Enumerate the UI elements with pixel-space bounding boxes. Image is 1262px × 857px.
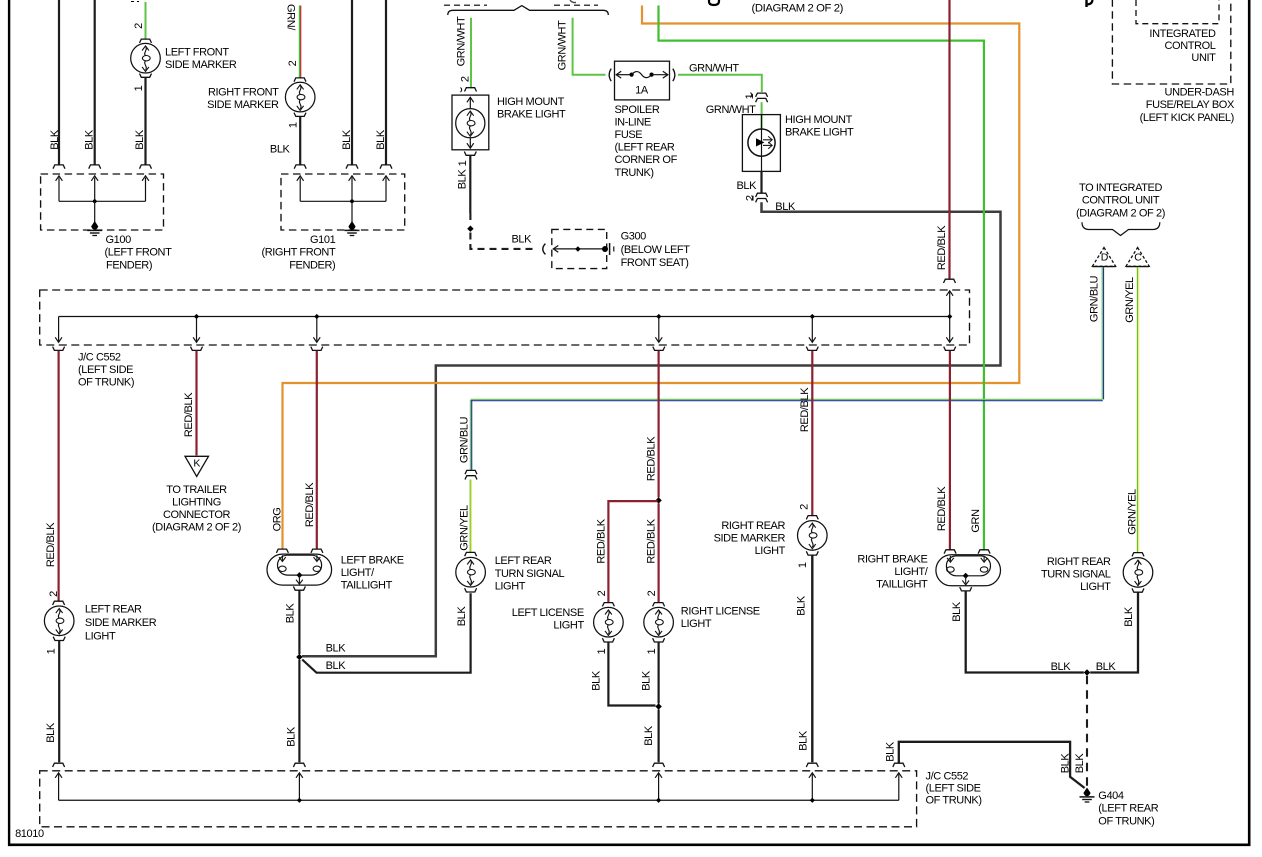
page border bottom bbox=[8, 843, 1251, 846]
bulb right rear side marker bbox=[798, 521, 828, 551]
svg-text:FUSE/RELAY BOX: FUSE/RELAY BOX bbox=[1146, 99, 1235, 111]
svg-text:BLK: BLK bbox=[640, 670, 652, 691]
svg-text:LIGHT: LIGHT bbox=[85, 630, 116, 642]
svg-text:RIGHT REAR: RIGHT REAR bbox=[721, 520, 785, 532]
ground splice left taillight bbox=[296, 654, 302, 660]
svg-text:CORNER OF: CORNER OF bbox=[615, 154, 678, 166]
wire BLK from right taillight bbox=[966, 591, 1084, 673]
integrated control unit inner box bbox=[1136, 0, 1219, 24]
svg-text:BLK: BLK bbox=[49, 129, 61, 150]
splice G-junction bbox=[467, 226, 473, 232]
svg-text:SIDE MARKER: SIDE MARKER bbox=[85, 617, 157, 629]
wire BLK from left taillight bbox=[298, 590, 300, 654]
wire BLK from right front side marker bbox=[299, 117, 301, 165]
cup right front side marker pin1 bbox=[294, 113, 306, 117]
wire GRN/WHT to fuse bbox=[573, 18, 606, 75]
svg-text:OF TRUNK): OF TRUNK) bbox=[1098, 815, 1154, 827]
svg-text:SIDE MARKER: SIDE MARKER bbox=[207, 99, 279, 111]
svg-text:1A: 1A bbox=[635, 84, 649, 96]
wire RED/BLK to right rear side marker bbox=[811, 351, 813, 516]
svg-text:TO TRAILER: TO TRAILER bbox=[166, 484, 227, 496]
svg-text:LEFT FRONT: LEFT FRONT bbox=[165, 47, 229, 59]
svg-text:FUSE: FUSE bbox=[615, 129, 643, 141]
fuse box bbox=[615, 61, 670, 100]
cup left taillight pin RED/BLK bbox=[311, 549, 323, 553]
bulb left rear turn signal bbox=[456, 557, 486, 587]
svg-text:RED/BLK: RED/BLK bbox=[595, 518, 607, 563]
svg-text:BLK: BLK bbox=[83, 129, 95, 150]
connector cup left front side marker pin1 bbox=[140, 74, 152, 78]
svg-text:(DIAGRAM 2 OF 2): (DIAGRAM 2 OF 2) bbox=[752, 2, 844, 14]
wire RED/BLK to right license bbox=[657, 503, 659, 602]
J/C C552 bottom pin at x=299.4 bbox=[293, 763, 305, 767]
cup right front side marker pin2 bbox=[294, 78, 306, 82]
wire BLK from right license bbox=[657, 642, 659, 704]
G101 ground lead bbox=[351, 201, 353, 222]
fuse right paren bbox=[673, 69, 675, 82]
cut label fragment bbox=[131, 1, 139, 3]
svg-text:LIGHT/: LIGHT/ bbox=[341, 567, 375, 579]
J/C C552 bus bbox=[59, 316, 950, 318]
wire BLK from hmbl1 bbox=[469, 155, 471, 213]
svg-text:GRN/WHT: GRN/WHT bbox=[455, 16, 467, 66]
dual filament taillight left bbox=[267, 554, 332, 585]
cup G100 pin3 bbox=[140, 165, 152, 169]
wire BLK from led bbox=[760, 171, 762, 192]
svg-text:BLK: BLK bbox=[1051, 661, 1072, 673]
under-dash fuse/relay box bbox=[1112, 0, 1230, 84]
dashed wire BLK to G404 bbox=[1086, 676, 1088, 787]
svg-text:BLK: BLK bbox=[134, 129, 146, 150]
wire BLK from left license bbox=[608, 642, 655, 706]
svg-text:LEFT LICENSE: LEFT LICENSE bbox=[512, 607, 584, 619]
wire RED/BLK feed bbox=[948, 0, 950, 279]
G100 pin1 arrow bbox=[58, 178, 60, 202]
page border right bbox=[1248, 0, 1251, 846]
svg-text:OF TRUNK): OF TRUNK) bbox=[926, 795, 982, 807]
svg-text:(LEFT KICK PANEL): (LEFT KICK PANEL) bbox=[1140, 112, 1234, 124]
wire RED/BLK to left license bbox=[608, 501, 657, 603]
connector cup left front side marker pin2 bbox=[140, 39, 152, 43]
G101 pin2 arrow bbox=[351, 178, 353, 202]
svg-text:BLK: BLK bbox=[285, 603, 297, 624]
svg-text:(LEFT SIDE: (LEFT SIDE bbox=[78, 364, 133, 376]
bulb left license light bbox=[594, 607, 624, 637]
wire BLK to G100 pin1 bbox=[58, 0, 60, 165]
junction connector J/C C552 box bbox=[40, 290, 970, 345]
ground box G101 bbox=[281, 174, 405, 230]
svg-text:GRN/BLU: GRN/BLU bbox=[1088, 276, 1100, 323]
svg-text:OF TRUNK): OF TRUNK) bbox=[78, 377, 134, 389]
J/C C552 bottom bus bbox=[59, 799, 899, 801]
cup G100 pin2 bbox=[89, 165, 101, 169]
svg-text:D: D bbox=[1101, 252, 1109, 264]
G101 bus junction bbox=[350, 199, 354, 203]
led lead bbox=[761, 115, 763, 172]
svg-text:RED/BLK: RED/BLK bbox=[936, 486, 948, 531]
cup G300 bbox=[543, 244, 546, 255]
wire BLK to G101 pin2 bbox=[351, 0, 353, 165]
bulb left rear side marker bbox=[44, 606, 74, 636]
svg-text:CONTROL: CONTROL bbox=[1165, 40, 1216, 52]
G300 splice bbox=[575, 246, 581, 252]
cup left taillight pin ORG bbox=[276, 549, 288, 553]
J/C C552 bottom pin at x=58.6 bbox=[53, 763, 65, 767]
cup right license pin1 bbox=[653, 638, 665, 642]
ground box G100 bbox=[41, 174, 164, 230]
svg-text:GRN/WHT: GRN/WHT bbox=[689, 63, 739, 75]
svg-text:(LEFT REAR: (LEFT REAR bbox=[1098, 803, 1158, 815]
cup G101 pin1 bbox=[294, 165, 306, 169]
bulb right license light bbox=[644, 607, 674, 637]
J/C C552 bottom pin at x=658.6 bbox=[653, 763, 665, 767]
svg-text:1: 1 bbox=[646, 648, 658, 654]
svg-text:BLK: BLK bbox=[326, 660, 347, 672]
brace to spoiler switch bbox=[448, 6, 609, 15]
ground box G300 bbox=[552, 229, 607, 268]
wire BLK bottom strip to G404 bbox=[899, 742, 1085, 788]
J/C C552 pin at x=196.5 bbox=[196, 317, 198, 342]
svg-text:CONTROL UNIT: CONTROL UNIT bbox=[1082, 195, 1160, 207]
svg-text:J/C C552: J/C C552 bbox=[78, 351, 121, 363]
wire GRN/BLU from D bbox=[1101, 267, 1103, 399]
svg-text:SPOILER: SPOILER bbox=[615, 104, 660, 116]
ground symbol G100 bbox=[91, 221, 98, 230]
J/C C552 pin at x=316.8 bbox=[316, 317, 318, 342]
svg-text:TAILLIGHT: TAILLIGHT bbox=[876, 579, 928, 591]
svg-text:(DIAGRAM 2 OF 2): (DIAGRAM 2 OF 2) bbox=[1076, 207, 1165, 219]
ground symbol G404 bbox=[1083, 788, 1090, 797]
cup high mount brake light pin 2 bbox=[465, 88, 477, 92]
svg-text:1: 1 bbox=[133, 85, 145, 91]
svg-text:LIGHT: LIGHT bbox=[1080, 581, 1111, 593]
svg-text:GRN/YEL: GRN/YEL bbox=[458, 505, 470, 551]
svg-text:G404: G404 bbox=[1098, 790, 1124, 802]
G100 ground lead bbox=[94, 201, 96, 222]
svg-text:1: 1 bbox=[797, 562, 809, 568]
wire BLK license to bottom strip bbox=[657, 710, 659, 763]
J/C C552 pin at x=949.7 bbox=[949, 317, 951, 342]
svg-text:81010: 81010 bbox=[15, 828, 44, 840]
svg-text:LIGHT: LIGHT bbox=[755, 545, 786, 557]
svg-text:ORG: ORG bbox=[271, 508, 283, 532]
svg-text:SIDE MARKER: SIDE MARKER bbox=[714, 532, 786, 544]
svg-text:BLK: BLK bbox=[1074, 753, 1086, 774]
svg-text:BLK: BLK bbox=[798, 730, 810, 751]
svg-text:TURN SIGNAL: TURN SIGNAL bbox=[495, 568, 565, 580]
svg-text:RED/BLK: RED/BLK bbox=[936, 225, 948, 270]
wire BLK branch from turn signal bbox=[302, 593, 470, 673]
cup right turn signal pin bbox=[1132, 553, 1144, 557]
wire GRN/YEL to left turn signal bbox=[469, 480, 471, 553]
svg-text:LIGHTING: LIGHTING bbox=[172, 496, 221, 508]
J/C C552 bottom pin at x=812.3 bbox=[806, 763, 818, 767]
cup left turn signal ground pin bbox=[465, 588, 477, 592]
inline connector pin 1 bbox=[756, 93, 768, 97]
J/C C552 bottom pin at x=898.8 bbox=[893, 763, 905, 767]
inline connector GRN/BLU-GRN/YEL bbox=[465, 470, 477, 474]
svg-text:LIGHT/: LIGHT/ bbox=[894, 566, 928, 578]
svg-text:BLK: BLK bbox=[456, 606, 468, 627]
wire GRN/WHT to high mount brake light 1 bbox=[470, 18, 472, 88]
svg-text:2: 2 bbox=[744, 195, 756, 201]
wire BLK from right rear side marker bbox=[811, 555, 813, 762]
wire BLK from right turn signal bbox=[1090, 592, 1138, 672]
svg-text:BRAKE LIGHT: BRAKE LIGHT bbox=[497, 109, 566, 121]
wire BLK from left rear side marker bbox=[58, 641, 60, 763]
hmbl1 pin lead top bbox=[469, 97, 471, 109]
ground symbol G101 bbox=[348, 221, 355, 230]
svg-text:CONNECTOR: CONNECTOR bbox=[163, 509, 231, 521]
svg-text:2: 2 bbox=[596, 590, 608, 596]
svg-text:BLK: BLK bbox=[590, 670, 602, 691]
svg-text:G300: G300 bbox=[621, 231, 647, 243]
wire GRN/WHT into led bbox=[761, 102, 763, 129]
svg-text:RED/BLK: RED/BLK bbox=[646, 436, 658, 481]
cup left license pin2 bbox=[602, 603, 614, 607]
svg-text:BLK: BLK bbox=[512, 233, 533, 245]
svg-text:RED/BLK: RED/BLK bbox=[183, 392, 195, 437]
bulb right rear turn signal bbox=[1123, 558, 1153, 588]
G300 terminal bar bbox=[609, 243, 611, 255]
G300 terminal dot bbox=[602, 246, 608, 252]
cup left taillight ground pin bbox=[293, 586, 305, 590]
dashed BLK wire to G300 bbox=[469, 213, 471, 225]
svg-text:2: 2 bbox=[798, 504, 810, 510]
svg-text:1: 1 bbox=[744, 93, 756, 99]
connector triangle D bbox=[1092, 248, 1115, 267]
svg-text:HIGH MOUNT: HIGH MOUNT bbox=[497, 96, 565, 108]
box high mount brake light 2 bbox=[742, 115, 780, 172]
svg-text:LEFT BRAKE: LEFT BRAKE bbox=[341, 555, 404, 567]
svg-text:HIGH MOUNT: HIGH MOUNT bbox=[785, 114, 853, 126]
svg-text:TRUNK): TRUNK) bbox=[615, 167, 654, 179]
svg-text:LIGHT: LIGHT bbox=[495, 580, 526, 592]
wire GRN feed bbox=[659, 6, 984, 551]
J/C C552 pin at x=812.3 bbox=[811, 317, 813, 342]
G100 bus junction bbox=[93, 199, 97, 203]
svg-text:BLK: BLK bbox=[326, 642, 347, 654]
svg-text:GRN/YEL: GRN/YEL bbox=[1124, 277, 1136, 323]
cup high mount brake light pin 1 bbox=[464, 152, 476, 156]
cup right license pin2 bbox=[653, 603, 665, 607]
svg-text:BLK: BLK bbox=[270, 144, 291, 156]
svg-text:BRAKE LIGHT: BRAKE LIGHT bbox=[785, 127, 854, 139]
J/C C552 pin at x=658.8 bbox=[658, 317, 660, 342]
J/C C552 feed pin entry bbox=[944, 279, 956, 283]
wire GRN/RED to right front side marker bbox=[298, 6, 300, 78]
cup right turn signal ground pin bbox=[1132, 588, 1144, 592]
svg-text:(LEFT SIDE: (LEFT SIDE bbox=[926, 782, 981, 794]
G101 pin3 arrow bbox=[385, 178, 387, 202]
svg-text:FENDER): FENDER) bbox=[106, 259, 152, 271]
inline connector pin 2 bbox=[756, 193, 768, 197]
cup G101 pin2 bbox=[346, 165, 358, 169]
svg-text:RED/BLK: RED/BLK bbox=[799, 387, 811, 432]
svg-text:GRN: GRN bbox=[970, 509, 982, 533]
svg-text:RIGHT BRAKE: RIGHT BRAKE bbox=[857, 554, 927, 566]
svg-text:2: 2 bbox=[459, 76, 471, 82]
G300 internal lead bbox=[555, 248, 605, 250]
wire RED/BLK to right brake light bbox=[949, 351, 951, 550]
G100 pin2 arrow bbox=[94, 178, 96, 202]
box high mount brake light 1 bbox=[452, 95, 489, 150]
svg-text:LIGHT: LIGHT bbox=[681, 618, 712, 630]
cup G100 pin1 bbox=[53, 165, 65, 169]
svg-text:UNIT: UNIT bbox=[1191, 52, 1216, 64]
svg-text:BLK: BLK bbox=[341, 129, 353, 150]
svg-text:BLK: BLK bbox=[45, 722, 57, 743]
cup G101 pin3 bbox=[380, 165, 392, 169]
svg-text:IN-LINE: IN-LINE bbox=[615, 117, 651, 129]
cup left rear side marker pin1 bbox=[53, 637, 65, 641]
license feed splice bbox=[655, 497, 661, 503]
svg-text:2: 2 bbox=[287, 60, 299, 66]
svg-text:C: C bbox=[1134, 252, 1142, 264]
cup right rear side marker pin2 bbox=[806, 516, 818, 520]
svg-text:RIGHT REAR: RIGHT REAR bbox=[1047, 556, 1111, 568]
svg-text:BLK: BLK bbox=[796, 595, 808, 616]
led triangle bbox=[756, 138, 764, 146]
cut title descender g bbox=[709, 0, 719, 5]
cut title descender p bbox=[1085, 0, 1087, 7]
wire RED/BLK to left rear side marker bbox=[57, 351, 59, 601]
G100 bus bbox=[59, 200, 146, 202]
svg-text:BLK: BLK bbox=[951, 601, 963, 622]
svg-text:(DIAGRAM 2 OF 2): (DIAGRAM 2 OF 2) bbox=[152, 522, 241, 534]
svg-text:FENDER): FENDER) bbox=[289, 259, 335, 271]
svg-text:GRN/BLU: GRN/BLU bbox=[458, 417, 470, 464]
svg-text:BLK: BLK bbox=[643, 725, 655, 746]
svg-text:GRN/WHT: GRN/WHT bbox=[556, 20, 568, 70]
ground junction splice bbox=[1084, 669, 1090, 675]
svg-text:LEFT REAR: LEFT REAR bbox=[85, 604, 142, 616]
wire RED/BLK to left brake light bbox=[316, 351, 318, 549]
svg-text:2: 2 bbox=[646, 590, 658, 596]
cup left rear side marker pin2 bbox=[53, 601, 65, 605]
bulb high mount brake light 1 bbox=[456, 109, 485, 138]
connector triangle K to trailer bbox=[185, 456, 209, 476]
cup right taillight pin RED/BLK bbox=[944, 550, 956, 554]
svg-text:(LEFT REAR: (LEFT REAR bbox=[615, 142, 675, 154]
wire GRN/WHT to left front side marker bbox=[145, 2, 147, 39]
wire RED/BLK to license junction bbox=[657, 351, 659, 498]
connector triangle C bbox=[1126, 248, 1149, 267]
J/C C552 pin at x=58.6 bbox=[58, 317, 60, 342]
cup right rear side marker pin1 bbox=[806, 551, 818, 555]
wire BLK from left front side marker bbox=[144, 78, 146, 165]
svg-text:TAILLIGHT: TAILLIGHT bbox=[341, 580, 393, 592]
svg-text:G100: G100 bbox=[106, 234, 132, 246]
bulb right front side marker bbox=[285, 82, 315, 112]
svg-text:(LEFT FRONT: (LEFT FRONT bbox=[105, 247, 173, 259]
svg-text:1: 1 bbox=[457, 160, 469, 166]
bulb left front side marker bbox=[131, 43, 161, 73]
svg-text:LEFT REAR: LEFT REAR bbox=[495, 555, 552, 567]
wire BLK junction to bottom strip bbox=[298, 660, 300, 762]
svg-text:(BELOW LEFT: (BELOW LEFT bbox=[621, 244, 691, 256]
G100 pin3 arrow bbox=[145, 178, 147, 202]
page border left bbox=[8, 0, 10, 846]
svg-text:BLK: BLK bbox=[375, 129, 387, 150]
svg-text:FRONT SEAT): FRONT SEAT) bbox=[621, 257, 689, 269]
svg-text:2: 2 bbox=[48, 591, 60, 597]
svg-text:1: 1 bbox=[45, 648, 57, 654]
svg-text:BLK: BLK bbox=[457, 169, 469, 190]
svg-text:TURN SIGNAL: TURN SIGNAL bbox=[1041, 568, 1111, 580]
svg-text:RIGHT FRONT: RIGHT FRONT bbox=[208, 86, 279, 98]
dual filament taillight right bbox=[936, 555, 1001, 586]
license ground splice bbox=[655, 703, 661, 709]
fuse left paren bbox=[609, 69, 611, 82]
cup left turn signal pin bbox=[465, 552, 477, 556]
hmbl1 pin lead bottom bbox=[469, 138, 471, 149]
svg-text:K: K bbox=[193, 458, 200, 470]
svg-text:2: 2 bbox=[133, 23, 145, 29]
svg-text:BLK: BLK bbox=[884, 741, 896, 762]
svg-text:GRN/: GRN/ bbox=[285, 4, 297, 31]
led circle bbox=[748, 129, 775, 156]
svg-text:TO INTEGRATED: TO INTEGRATED bbox=[1079, 182, 1162, 194]
svg-text:1: 1 bbox=[596, 648, 608, 654]
svg-text:G101: G101 bbox=[310, 234, 336, 246]
G101 bus bbox=[300, 200, 386, 202]
led arrows bbox=[763, 139, 772, 141]
wire BLK ground run from led light bbox=[302, 202, 1001, 656]
svg-text:(RIGHT FRONT: (RIGHT FRONT bbox=[261, 247, 336, 259]
gather brace bbox=[1082, 222, 1160, 235]
cup left license pin1 bbox=[602, 638, 614, 642]
G101 pin1 arrow bbox=[299, 178, 301, 202]
svg-text:GRN/YEL: GRN/YEL bbox=[1126, 489, 1138, 535]
wire ORG feed bbox=[283, 6, 1020, 550]
svg-text:RED/BLK: RED/BLK bbox=[646, 518, 658, 563]
svg-text:UNDER-DASH: UNDER-DASH bbox=[1165, 87, 1235, 99]
svg-text:J/C C552: J/C C552 bbox=[926, 770, 969, 782]
wire BLK to G100 pin2 bbox=[94, 0, 96, 165]
junction connector J/C C552 bottom box bbox=[40, 771, 917, 827]
cup right taillight ground pin bbox=[960, 587, 972, 591]
wire RED/BLK to trailer connector bbox=[195, 351, 197, 456]
svg-text:RED/BLK: RED/BLK bbox=[45, 522, 57, 567]
wire BLK to G101 pin3 bbox=[385, 0, 387, 165]
svg-text:RIGHT LICENSE: RIGHT LICENSE bbox=[681, 606, 760, 618]
wire GRN/YEL from C bbox=[1136, 267, 1138, 552]
svg-text:LIGHT: LIGHT bbox=[553, 620, 584, 632]
svg-text:BLK: BLK bbox=[737, 180, 758, 192]
wire GRN/WHT from fuse bbox=[678, 75, 762, 92]
svg-text:SIDE MARKER: SIDE MARKER bbox=[165, 59, 237, 71]
svg-text:RED/BLK: RED/BLK bbox=[304, 482, 316, 527]
svg-text:INTEGRATED: INTEGRATED bbox=[1149, 28, 1216, 40]
svg-text:BLK: BLK bbox=[1123, 606, 1135, 627]
svg-text:1: 1 bbox=[288, 122, 300, 128]
svg-text:BLK: BLK bbox=[286, 726, 298, 747]
cup right taillight pin GRN bbox=[978, 550, 990, 554]
svg-text:BLK: BLK bbox=[1096, 661, 1117, 673]
fuse 1A element bbox=[616, 71, 621, 78]
cut label fragments above brace bbox=[444, 4, 487, 6]
